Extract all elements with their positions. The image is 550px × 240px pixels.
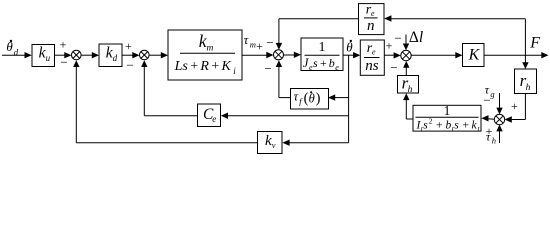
svg-text:R: R <box>199 59 209 74</box>
svg-text:s: s <box>454 119 459 131</box>
block k_d <box>99 44 122 67</box>
svg-text:−: − <box>126 58 133 73</box>
svg-text:−: − <box>483 92 490 107</box>
svg-text:u: u <box>46 53 51 63</box>
svg-text:h: h <box>492 136 496 146</box>
svg-text:+: + <box>463 119 470 131</box>
svg-text:b: b <box>446 119 452 131</box>
svg-text:): ) <box>316 91 321 107</box>
block tau_f(theta_dot) <box>291 89 329 110</box>
wire branch to k_v block <box>282 140 348 146</box>
sign minus at Delta-l input <box>394 31 401 46</box>
svg-text:−: − <box>264 61 271 76</box>
svg-text:+: + <box>190 59 198 74</box>
wire input to k_u <box>2 52 32 58</box>
wire tau_g input drop into J5 <box>496 93 502 114</box>
svg-text:+: + <box>211 59 219 74</box>
wire tau_f to junction J3 bottom <box>276 60 291 97</box>
svg-text:2: 2 <box>429 116 433 125</box>
wire r_e/ns to junction J4 <box>384 52 401 58</box>
sign minus at J4 bottom <box>390 60 397 75</box>
wire K to F output <box>484 52 549 58</box>
wire J3 to inertia block <box>284 52 302 58</box>
svg-text:h: h <box>408 85 413 95</box>
svg-text:−: − <box>390 60 397 75</box>
svg-text:s: s <box>423 119 428 131</box>
sign plus at J3 left <box>256 39 263 53</box>
svg-text:d: d <box>113 53 118 63</box>
svg-text:−: − <box>60 55 67 70</box>
wire right r_h down and into junction J5 <box>505 94 526 123</box>
svg-text:θ: θ <box>346 40 353 55</box>
svg-text:+: + <box>60 38 67 52</box>
svg-text:d: d <box>14 48 19 58</box>
node tau_m label <box>244 33 256 50</box>
svg-text:e: e <box>335 63 339 72</box>
block r_e/ns <box>360 40 384 75</box>
wire inertia block to r_e/ns <box>343 52 360 58</box>
wire Delta-l input drop into J4 <box>403 35 409 51</box>
wire branch to C_e block <box>221 113 349 119</box>
wire force branch down to right r_h <box>522 55 528 69</box>
wire k_d to junction J2 <box>122 52 140 58</box>
node tau_g input label <box>485 83 495 99</box>
wire C_e to junction J2 bottom <box>141 60 197 115</box>
block K <box>463 44 485 67</box>
sign plus at J1 left <box>60 38 67 52</box>
wire tau_h input rise into J5 <box>496 125 502 143</box>
block r_h left <box>398 73 419 95</box>
wire branch to tau_f block <box>328 94 349 100</box>
summing junction J5 <box>494 114 504 124</box>
block motor k_m/(Ls+R+K_i) <box>168 30 242 80</box>
wire J5 to limb block <box>481 115 494 121</box>
wire force feedback riser and top run <box>384 15 525 55</box>
summing junction J1 <box>72 50 82 60</box>
svg-text:e: e <box>372 48 376 57</box>
svg-text:i: i <box>233 66 236 76</box>
svg-text:τ: τ <box>294 90 299 104</box>
svg-text:g: g <box>490 89 494 99</box>
block k_v <box>258 132 283 154</box>
sign plus at J4 left <box>386 39 393 53</box>
node tau_h input label <box>486 129 496 145</box>
svg-text:K: K <box>221 59 232 74</box>
svg-text:n: n <box>367 18 375 34</box>
summing junction J4 <box>401 50 411 60</box>
summing junction J3 <box>274 50 284 60</box>
node Delta-l input label <box>409 29 423 46</box>
svg-text:ns: ns <box>365 58 379 74</box>
svg-text:e: e <box>371 9 375 18</box>
sign plus at tau_h input <box>486 124 493 138</box>
sign plus at J5 right <box>511 99 518 113</box>
svg-text:v: v <box>272 140 276 150</box>
wire theta_dot branch vertical <box>348 55 350 143</box>
svg-text:+: + <box>436 119 443 131</box>
block r_h right <box>515 69 537 94</box>
svg-text:+: + <box>386 39 393 53</box>
svg-text:τ: τ <box>486 129 491 143</box>
wire J1 to k_d <box>81 52 99 58</box>
svg-text:−: − <box>394 31 401 46</box>
sign minus at J3 bottom <box>264 61 271 76</box>
sign minus at J2 bottom <box>126 58 133 73</box>
block C_e <box>198 104 221 127</box>
wire left r_h up into J4 <box>403 61 409 76</box>
svg-text:+: + <box>256 39 263 53</box>
block 1/(I_t s^2 + b_t s + k_t) <box>413 103 481 133</box>
svg-text:m: m <box>250 40 256 50</box>
svg-text:−: − <box>266 35 273 50</box>
svg-text:m: m <box>207 44 214 54</box>
svg-text:e: e <box>212 114 216 124</box>
svg-text:+: + <box>511 99 518 113</box>
svg-text:θ: θ <box>309 92 315 106</box>
svg-text:F: F <box>529 35 540 52</box>
svg-text:Δl: Δl <box>409 29 423 46</box>
block 1/(J_e s + b_e) <box>301 38 343 72</box>
wire J4 to K block <box>411 52 462 58</box>
svg-text:+: + <box>125 39 132 53</box>
sign minus at J1 bottom <box>60 55 67 70</box>
svg-text:1: 1 <box>444 103 451 118</box>
wire motor block to junction J3 <box>242 52 274 58</box>
wire k_u to junction J1 <box>55 52 72 58</box>
block k_u <box>32 45 55 67</box>
svg-text:τ: τ <box>244 33 249 47</box>
svg-text:1: 1 <box>319 40 326 55</box>
wire limb block to left r_h <box>403 93 413 119</box>
sign minus at tau_g input <box>483 92 490 107</box>
wire r_e/n to junction J3 top <box>276 19 359 50</box>
block r_e/n <box>359 2 385 34</box>
svg-text:s: s <box>313 56 318 70</box>
node theta_dot_d input label <box>6 39 18 57</box>
sign minus at J3 top <box>266 35 273 50</box>
svg-text:Ls: Ls <box>174 59 189 74</box>
svg-text:+: + <box>320 56 327 70</box>
wire J2 to motor block <box>149 52 168 58</box>
svg-text:b: b <box>329 56 335 70</box>
svg-text:K: K <box>468 47 481 64</box>
wire k_v to junction J1 bottom <box>73 60 257 143</box>
node theta_dot label <box>346 40 353 55</box>
svg-text:h: h <box>526 83 531 93</box>
sign plus at J2 left <box>125 39 132 53</box>
summing junction J2 <box>140 50 150 60</box>
node F output label <box>529 35 540 52</box>
